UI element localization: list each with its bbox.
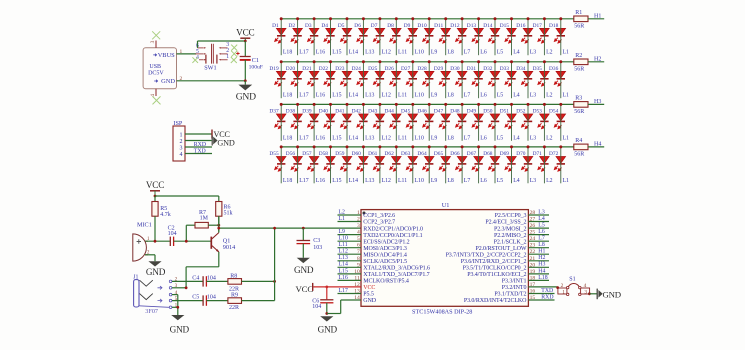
ground GND (mic) [146,261,166,277]
pin 18 (P3.3/INT1) [502,275,549,284]
svg-text:4: 4 [357,230,360,236]
svg-text:L16: L16 [316,93,325,99]
LED D15 [500,23,517,43]
wire U1 pin 14 (GND) to C6 node [327,300,361,314]
svg-text:L10: L10 [415,50,424,56]
LED D9 [404,23,418,43]
junction [543,145,546,148]
wire [280,104,282,140]
svg-text:L4: L4 [538,216,545,222]
wire [478,147,480,183]
svg-text:L16: L16 [316,135,325,141]
LED D21 [302,66,319,86]
junction [559,145,562,148]
junction [543,60,546,63]
resistor R8 22R [228,273,242,292]
LED D17 [533,23,550,43]
junction [280,145,283,148]
pin 28 (P2.5/CCP0_3) [495,210,549,219]
svg-text:3: 3 [180,145,183,151]
LED D70 [516,151,533,171]
svg-text:L13: L13 [365,50,374,56]
junction [527,60,530,63]
svg-text:L5: L5 [497,178,504,184]
wire SW1 pin 6 up and over to VCC node [198,41,246,48]
LED D48 [450,109,467,129]
svg-text:VCC: VCC [146,180,164,190]
svg-text:22: 22 [530,249,536,255]
svg-text:L12: L12 [382,135,391,141]
svg-text:5: 5 [357,236,360,242]
svg-text:GND: GND [603,290,621,300]
wire [330,62,332,98]
svg-text:56R: 56R [574,109,584,115]
switch SW1 [195,42,229,72]
no-connect X on SW1 pin 4 [192,57,198,63]
junction [510,145,513,148]
LED D68 [483,151,500,171]
junction [411,103,414,106]
LED D32 [483,66,500,86]
svg-text:23: 23 [530,243,536,249]
svg-text:L7: L7 [464,135,471,141]
svg-text:P2.0/RSTOUT_LOW: P2.0/RSTOUT_LOW [475,246,526,252]
LED D49 [467,109,484,129]
pin 16 (P3.1/TXD/T2) [494,289,554,298]
svg-text:C1: C1 [252,57,259,64]
LED D46 [417,109,434,129]
svg-text:L11: L11 [339,242,348,248]
svg-text:R4: R4 [575,138,582,144]
svg-text:GND: GND [217,139,234,148]
svg-text:GND: GND [236,91,256,102]
junction [362,60,365,63]
svg-text:L7: L7 [464,93,471,99]
wire [346,147,348,183]
junction [244,40,247,43]
LED D37 [269,109,286,129]
junction [378,60,381,63]
svg-text:GND: GND [318,325,338,335]
svg-text:ISP: ISP [173,120,183,127]
svg-text:L18: L18 [283,50,292,56]
wire [527,19,529,55]
wire [560,19,562,55]
wire [346,104,348,140]
wire [494,104,496,140]
junction [494,103,497,106]
pin 26 (P2.3/MOSI_2) [494,223,549,232]
wire [379,62,381,98]
wire [511,147,513,183]
pin 6 (MOSI/ADC3/P1.3) [338,243,407,252]
wire [297,62,299,98]
wire [428,62,430,98]
junction [395,60,398,63]
LED D25 [368,66,385,86]
svg-text:27: 27 [530,217,536,223]
wire [588,103,604,105]
svg-text:L17: L17 [299,178,308,184]
svg-text:H3: H3 [594,99,601,105]
LED D28 [417,66,434,86]
svg-text:L1: L1 [563,135,570,141]
wire [412,104,414,140]
svg-text:L2: L2 [546,178,553,184]
wire [560,62,562,98]
svg-text:L3: L3 [530,93,537,99]
IC U1 STC15W408AS DIP-28 [361,202,528,316]
LED D47 [434,109,451,129]
LED D24 [352,66,369,86]
wire [280,19,282,55]
svg-text:VCC: VCC [296,284,314,294]
LED D30 [450,66,467,86]
junction [510,60,513,63]
wire [511,104,513,140]
svg-text:L8: L8 [538,242,545,248]
LED D14 [483,23,500,43]
svg-text:L17: L17 [339,288,348,294]
junction [154,240,157,243]
junction [313,60,316,63]
ground GND (C3) [294,258,314,275]
capacitor C1 100uF (polarized) [236,52,263,71]
svg-text:L15: L15 [339,268,348,274]
pin 4 (no connect, bottom) [150,89,161,105]
wire [379,19,381,55]
svg-text:L12: L12 [382,93,391,99]
svg-text:C4: C4 [192,275,199,281]
wire C1 to GND rail [244,60,246,81]
svg-text:L10: L10 [415,135,424,141]
svg-text:L14: L14 [339,262,348,268]
wire [511,62,513,98]
capacitor C5 104 [192,295,216,306]
junction [395,103,398,106]
svg-text:L10: L10 [415,178,424,184]
svg-text:L18: L18 [538,275,547,281]
power port VCC (U1 pin 12) [296,283,314,294]
svg-text:C5: C5 [192,295,199,301]
svg-text:P3.5/T1/T0CLKO/CCP0_2: P3.5/T1/T0CLKO/CCP0_2 [463,266,527,272]
junction [411,60,414,63]
LED D29 [434,66,451,86]
power port VCC (ISP, sideways) [212,130,230,139]
junction [185,286,188,289]
svg-text:L15: L15 [332,178,341,184]
LED D71 [533,151,550,171]
svg-text:2: 2 [357,217,360,223]
wire C5 to R9 [206,300,228,302]
svg-text:2: 2 [561,283,564,289]
pin 21 (P3.6/INT2/RXD_2/CCP1_2) [461,256,549,265]
svg-text:L8: L8 [447,93,454,99]
pin 24 (P2.1/SCLK_2) [494,236,549,245]
svg-text:P2.1/SCLK_2: P2.1/SCLK_2 [494,239,527,245]
svg-text:L7: L7 [538,236,545,242]
junction [510,103,513,106]
junction [280,60,283,63]
svg-text:L9: L9 [339,229,346,235]
LED D40 [319,109,336,129]
svg-text:L10: L10 [415,93,424,99]
wire [297,147,299,183]
wire [280,147,282,183]
svg-text:8: 8 [357,256,360,262]
svg-text:P2.5/CCP0_3: P2.5/CCP0_3 [495,213,527,219]
svg-text:L14: L14 [349,135,358,141]
junction [444,17,447,20]
junction [428,145,431,148]
wire VCC port to U1 pin 12 (red) [313,286,361,288]
wire [412,19,414,55]
svg-text:TXD2/CCP0/ADC1/P1.1: TXD2/CCP0/ADC1/P1.1 [363,233,422,239]
junction [428,60,431,63]
svg-text:L18: L18 [283,178,292,184]
LED D35 [533,66,550,86]
LED D53 [533,109,550,129]
junction [346,17,349,20]
LED D4 [321,23,335,43]
svg-text:L12: L12 [382,178,391,184]
junction [325,312,328,315]
svg-text:L6: L6 [480,93,487,99]
junction [477,103,480,106]
svg-text:3F07: 3F07 [145,308,158,315]
connector J1 headphone jack 3F07 [133,275,177,316]
svg-text:USB: USB [149,64,161,70]
svg-text:21: 21 [530,256,536,262]
wire J1 pin 2 to C4 [172,280,203,282]
svg-text:1: 1 [562,290,565,296]
resistor R6 51k [216,196,233,232]
LED D59 [335,151,352,171]
junction [559,103,562,106]
wire [313,104,315,140]
svg-text:VBUS: VBUS [158,52,175,59]
resistor R4 56R [574,138,588,158]
svg-text:H4: H4 [594,141,601,147]
wire [494,19,496,55]
wire C4 to R8 [206,280,228,282]
pin 20 (P3.5/T1/T0CLKO/CCP0_2) [463,262,549,271]
svg-text:104: 104 [168,231,177,237]
wire [362,104,364,140]
svg-text:L16: L16 [316,50,325,56]
svg-text:R2: R2 [575,53,582,59]
wire GND (USB pin 2 to C1/GND rail) [177,80,246,82]
wire [412,62,414,98]
svg-text:L6: L6 [480,178,487,184]
LED D57 [302,151,319,171]
svg-text:103: 103 [313,245,322,251]
wire [588,61,604,63]
svg-text:VCC: VCC [214,130,231,139]
capacitor C4 104 [192,275,216,286]
LED D2 [289,23,303,43]
LED D36 [549,66,566,86]
pin 19 (P3.4/T0/T1CLKO/ECI_2) [467,269,549,278]
svg-text:L8: L8 [447,178,454,184]
wire [297,104,299,140]
svg-text:20: 20 [530,262,536,268]
svg-text:L8: L8 [447,135,454,141]
svg-text:MCLKO/RST/P5.4: MCLKO/RST/P5.4 [363,279,409,285]
svg-text:MIC1: MIC1 [137,221,152,228]
LED D60 [352,151,369,171]
svg-text:L3: L3 [530,178,537,184]
junction [378,17,381,20]
junction [362,145,365,148]
junction [325,286,328,289]
pin 11 (MCLKO/RST/P5.4) [338,275,409,284]
svg-text:P3.3/INT1: P3.3/INT1 [502,279,527,285]
svg-text:P3.7/INT3/TXD_2/CCP2/CCP2_2: P3.7/INT3/TXD_2/CCP2/CCP2_2 [446,252,527,258]
LED D34 [516,66,533,86]
svg-text:1: 1 [180,49,183,55]
wire collector node to U1 pin 3 (ADC0) [219,227,361,229]
junction [510,17,513,20]
svg-text:L8: L8 [447,50,454,56]
svg-text:GND: GND [294,265,314,275]
svg-text:GND: GND [146,267,166,277]
svg-text:25: 25 [530,230,536,236]
wire [478,104,480,140]
junction [176,306,179,309]
wire [297,19,299,55]
LED D11 [434,23,450,43]
wire [362,62,364,98]
pin 27 (P2.4/ECI_3/SS_2) [485,217,549,226]
junction [346,145,349,148]
svg-text:L4: L4 [513,93,520,99]
svg-text:S1: S1 [569,277,575,283]
svg-text:L7: L7 [464,50,471,56]
svg-text:2: 2 [180,76,183,82]
LED D72 [549,151,566,171]
svg-text:GND: GND [161,78,175,85]
LED D20 [286,66,303,86]
wire J1 pin 3 to emitter node [172,287,186,289]
svg-text:L15: L15 [332,135,341,141]
connector ISP header [173,120,185,161]
LED D10 [417,23,434,43]
svg-text:L17: L17 [299,50,308,56]
svg-text:P3.6/INT2/RXD_2/CCP1_2: P3.6/INT2/RXD_2/CCP1_2 [461,259,527,265]
LED D1 [272,23,286,43]
wire [511,19,513,55]
wire [478,19,480,55]
svg-text:18: 18 [530,275,536,281]
LED D33 [500,66,517,86]
svg-text:L11: L11 [398,135,407,141]
svg-text:H3: H3 [538,262,545,268]
wire [560,147,562,183]
junction [296,17,299,20]
svg-text:L1: L1 [563,93,570,99]
svg-text:2: 2 [180,139,183,145]
junction [428,17,431,20]
LED D58 [319,151,336,171]
junction [346,60,349,63]
junction [411,145,414,148]
wire [428,147,430,183]
svg-text:11: 11 [354,275,360,281]
svg-text:13: 13 [354,289,360,295]
svg-text:L1: L1 [563,50,570,56]
LED D41 [335,109,352,129]
svg-text:1: 1 [180,132,183,138]
junction [296,60,299,63]
junction [494,60,497,63]
wire [379,147,381,183]
wire [313,147,315,183]
wire [412,147,414,183]
switch S1 (tact button) [558,277,590,296]
wire MIC1 pin 2 to GND [145,255,155,261]
svg-text:6: 6 [357,243,360,249]
wire R8 to sum node [242,280,275,282]
wire [527,104,529,140]
wire [560,104,562,140]
svg-text:L9: L9 [431,178,438,184]
wire [494,62,496,98]
svg-text:P2.3/MOSI_2: P2.3/MOSI_2 [494,226,527,232]
pin 12 (VCC) [354,282,375,291]
pin 10 (XTAL1/TXD_3/ADC7/P1.7) [338,269,430,278]
junction [296,103,299,106]
svg-text:XTAL2/RXD_3/ADC6/P1.6: XTAL2/RXD_3/ADC6/P1.6 [363,266,430,272]
svg-text:H4: H4 [538,268,545,274]
wire [395,62,397,98]
svg-text:C3: C3 [313,238,320,244]
svg-text:L16: L16 [316,178,325,184]
ground GND (S1, sideways) [597,289,621,300]
wire ISP pin 3 (RXD) [185,146,212,148]
pin 23 (P2.0/RSTOUT_LOW) [475,243,549,252]
svg-text:SCLK/ADC5/P1.5: SCLK/ADC5/P1.5 [363,259,407,265]
junction [185,240,188,243]
svg-text:19: 19 [530,269,536,275]
wire [461,19,463,55]
svg-text:22R: 22R [229,305,239,311]
junction [362,103,365,106]
svg-text:L12: L12 [382,50,391,56]
svg-text:104: 104 [312,304,321,310]
LED D56 [286,151,303,171]
svg-text:L2: L2 [546,50,553,56]
junction [527,103,530,106]
pin 7 (MISO/ADC4/P1.4) [338,249,407,258]
LED D6 [354,23,368,43]
junction [559,17,562,20]
junction [280,103,283,106]
LED D18 [549,23,566,43]
LED D3 [305,23,319,43]
wire [280,62,282,98]
LED D43 [368,109,385,129]
wire row 4 anode bus [281,146,574,148]
junction [527,145,530,148]
pin 4 (TXD2/CCP0/ADC1/P1.1) [338,230,423,239]
junction [395,145,398,148]
wire R9 to sum node [242,300,275,302]
ground GND (C6) [318,316,338,334]
junction [477,17,480,20]
svg-text:3: 3 [150,40,156,43]
LED D8 [387,23,401,43]
